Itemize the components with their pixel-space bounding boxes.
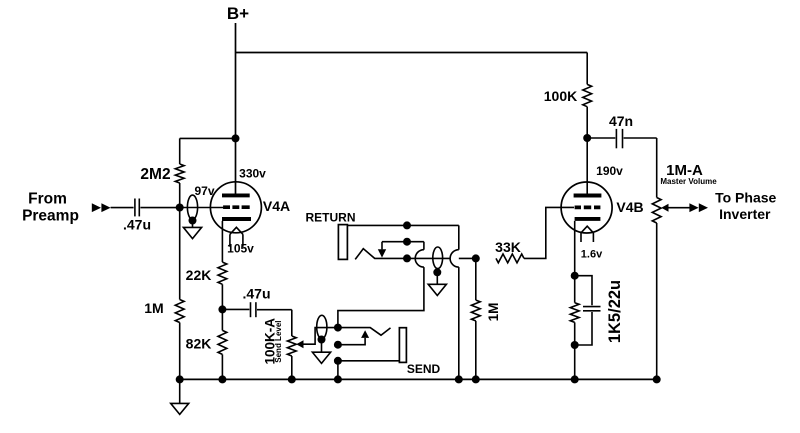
- tube V4A envelope U1: [210, 182, 261, 233]
- probe ellipse 97v: [187, 195, 197, 219]
- V4B heater: [581, 226, 593, 233]
- resistor R 100K plate: [586, 53, 588, 85]
- wire return-NC to send-tip vertical: [423, 242, 425, 250]
- wire B+ top rail: [236, 52, 588, 54]
- jack SEND body: [399, 328, 406, 363]
- svg-text:From: From: [28, 191, 67, 208]
- wire 33K to V4B grid: [524, 207, 574, 258]
- V4A plate: [222, 193, 250, 197]
- svg-text:1.6v: 1.6v: [581, 249, 603, 261]
- svg-text:82K: 82K: [186, 335, 212, 351]
- svg-text:100K: 100K: [544, 88, 577, 104]
- resistor R 1K5: [570, 303, 579, 323]
- svg-text:2M2: 2M2: [140, 166, 170, 183]
- node cathode network top dot: [571, 272, 579, 280]
- node send tip dot: [334, 324, 342, 332]
- ground at 97v probe: [183, 227, 201, 238]
- svg-text:190v: 190v: [596, 164, 623, 178]
- svg-text:33K: 33K: [495, 239, 521, 255]
- V4A grid: [223, 205, 250, 209]
- V4B plate: [574, 194, 602, 198]
- tube V4B envelope U2: [561, 182, 612, 233]
- jack SEND sleeve wire: [334, 357, 342, 365]
- jack SEND tip spring: [338, 328, 391, 336]
- wire plate node to 2M2 top: [180, 137, 236, 139]
- node cathode network bottom dot: [571, 341, 579, 349]
- hop over return tip wire: [415, 250, 424, 267]
- svg-text:V4A: V4A: [263, 198, 290, 214]
- resistor R 22K: [218, 262, 227, 284]
- node 33K/1M junction dot: [472, 254, 480, 262]
- wire V4B cathode down: [574, 221, 576, 303]
- capacitor C 22u bypass: [575, 276, 592, 306]
- svg-text:B+: B+: [227, 4, 249, 23]
- V4A cathode: [222, 217, 251, 221]
- ground at return probe: [428, 284, 446, 295]
- resistor R 82K: [221, 309, 223, 330]
- 1M-A wiper arrow and output arrows: [661, 204, 668, 212]
- node input junction dot: [176, 204, 184, 212]
- svg-text:97v: 97v: [194, 184, 214, 198]
- svg-text:105v: 105v: [227, 242, 254, 256]
- svg-text:V4B: V4B: [616, 199, 643, 215]
- jack SEND switch arrow: [334, 341, 342, 349]
- probe ellipse at send level wiper: [317, 315, 327, 338]
- capacitor C 47n: [587, 137, 615, 139]
- wire cap to junction: [140, 207, 179, 209]
- jack RETURN switch arrow: [382, 241, 424, 243]
- jack RETURN tip spring and wire to 33K: [355, 249, 476, 260]
- input arrows: [92, 203, 101, 212]
- node junction dot plate/2M2: [232, 134, 240, 142]
- hop over tip wire (sleeve line): [450, 250, 459, 267]
- wire junction to V4A grid: [180, 207, 224, 209]
- probe ellipse at return tip: [433, 247, 443, 269]
- svg-text:1K5/22u: 1K5/22u: [606, 280, 624, 343]
- svg-text:.47u: .47u: [123, 217, 151, 233]
- capacitor C .47u send: [222, 308, 249, 310]
- svg-text:Inverter: Inverter: [719, 206, 771, 222]
- wire V4A cathode to 22K: [221, 221, 223, 262]
- ground at send wiper probe: [312, 352, 330, 363]
- potentiometer 1M-A master volume: [656, 138, 658, 198]
- resistor R 2M2: [179, 138, 181, 164]
- resistor R 1M left: [179, 208, 181, 300]
- svg-text:1M: 1M: [144, 300, 163, 316]
- capacitor C .47u input: [134, 199, 136, 217]
- V4B grid: [575, 206, 601, 210]
- V4B cathode: [575, 217, 601, 221]
- node V4B plate junction dot: [583, 134, 591, 142]
- ground symbol main: [179, 379, 181, 403]
- svg-text:Preamp: Preamp: [22, 208, 79, 225]
- svg-text:47n: 47n: [609, 113, 633, 129]
- svg-text:Send Level: Send Level: [274, 320, 283, 362]
- svg-text:SEND: SEND: [407, 362, 441, 376]
- potentiometer 100K-A send level: [291, 310, 293, 336]
- node 22K/82K junction dot: [218, 305, 226, 313]
- resistor R 33K: [496, 254, 524, 263]
- jack RETURN sleeve wire to ground: [347, 224, 458, 226]
- jack RETURN body: [338, 225, 347, 260]
- svg-text:330v: 330v: [239, 167, 266, 181]
- svg-text:Master Volume: Master Volume: [660, 177, 717, 186]
- svg-text:To Phase: To Phase: [715, 189, 776, 205]
- wire return sleeve down to rail: [458, 225, 460, 249]
- svg-text:22K: 22K: [186, 267, 212, 283]
- wire input to cap: [111, 207, 134, 209]
- V4A heater: [230, 227, 243, 234]
- svg-text:1M: 1M: [486, 303, 501, 322]
- ground rail bottom: [180, 378, 657, 380]
- resistor R 1M middle: [475, 258, 477, 300]
- svg-text:RETURN: RETURN: [306, 211, 356, 225]
- 100K-A wiper arrow: [296, 340, 303, 348]
- wire B+ vertical to V4A plate: [235, 23, 237, 194]
- svg-text:.47u: .47u: [242, 286, 270, 302]
